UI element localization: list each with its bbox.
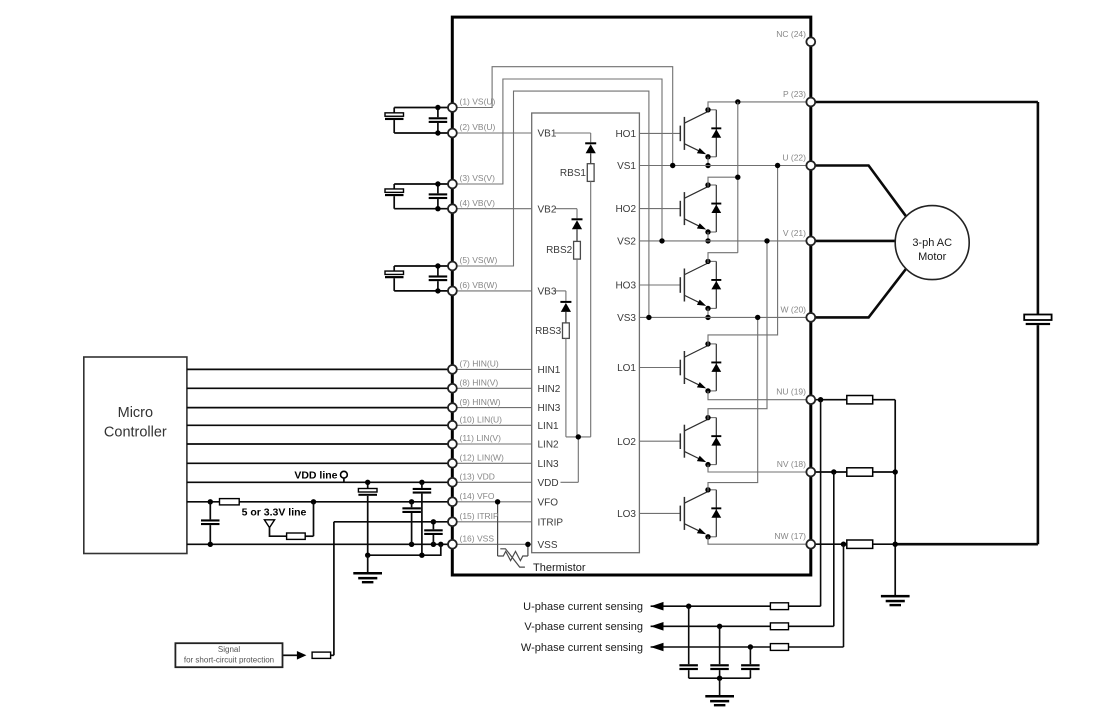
- svg-text:(13) VDD: (13) VDD: [460, 472, 495, 482]
- micro controller box: [84, 357, 187, 554]
- node VFO line taps: [208, 499, 213, 504]
- capacitor C4 VFO filter: [411, 502, 413, 508]
- wire pin12 LIN(W) to inner box: [452, 462, 531, 464]
- wire LO2 gate lead: [639, 440, 680, 442]
- capacitor C3 VDD decoupling: [421, 482, 423, 488]
- wire VB(V) cap branch: [394, 208, 452, 210]
- wire arrow to resistor: [283, 654, 298, 656]
- svg-text:VS2: VS2: [617, 237, 636, 248]
- diode D4 freewheel: [708, 343, 716, 345]
- wire HO1 emitter to VS rail: [707, 157, 709, 166]
- wire pin14 VFO to inner box: [452, 501, 531, 503]
- node NV sense tap: [831, 469, 836, 474]
- svg-text:HO2: HO2: [615, 204, 636, 215]
- pin 2 VB(U): [448, 129, 457, 138]
- svg-text:U (22): U (22): [782, 153, 806, 163]
- svg-text:(7) HIN(U): (7) HIN(U): [460, 359, 499, 369]
- wire U-phase sense line: [651, 605, 821, 607]
- pin 9 HIN(W): [448, 403, 457, 412]
- wire V pin to motor: [811, 240, 896, 243]
- svg-text:W-phase current sensing: W-phase current sensing: [521, 642, 643, 654]
- svg-text:W (20): W (20): [781, 304, 807, 314]
- node LO2 collector: [705, 415, 710, 420]
- capacitor CBW1 bootstrap electrolytic: [393, 266, 395, 271]
- node LO2 emitter: [705, 462, 710, 467]
- motor M1 3-ph AC: [895, 206, 969, 280]
- arrow signal direction: [297, 651, 307, 660]
- svg-text:LO3: LO3: [617, 509, 636, 520]
- wire VS1 rail: [639, 165, 810, 167]
- svg-text:HIN3: HIN3: [538, 403, 561, 414]
- wire pin7 HIN(U) to inner box: [452, 368, 531, 370]
- svg-text:Motor: Motor: [918, 251, 946, 263]
- wire pin15 ITRIP to inner box: [452, 521, 531, 523]
- svg-text:NC (24): NC (24): [776, 29, 806, 39]
- svg-text:(14) VFO: (14) VFO: [460, 491, 495, 501]
- diode D1 freewheel: [708, 109, 716, 111]
- node VDD line taps: [365, 480, 370, 485]
- wire V-phase sense line: [651, 625, 834, 627]
- node NW sense tap: [841, 542, 846, 547]
- resistor sense V-phase: [770, 623, 788, 630]
- wire Q2 collector rail: [708, 177, 738, 186]
- transistor Q5 (V low): [679, 433, 681, 449]
- pin NC (24): [806, 37, 815, 46]
- svg-text:VDD: VDD: [538, 478, 559, 489]
- pin 15 ITRIP: [448, 517, 457, 526]
- capacitor C1 VFO-VSS at MC: [209, 502, 211, 520]
- wire pin11 LIN(V) to inner box: [452, 443, 531, 445]
- svg-text:(2) VB(U): (2) VB(U): [460, 122, 496, 132]
- capacitor CBW2 bootstrap ceramic: [437, 266, 439, 275]
- wire P pin to DC bus: [811, 101, 1038, 104]
- svg-text:(8) HIN(V): (8) HIN(V): [460, 378, 499, 388]
- wire MC to pin9: [187, 407, 453, 409]
- pin 16 VSS: [448, 540, 457, 549]
- pin V (21): [806, 237, 815, 246]
- resistor R3 ITRIP series: [312, 652, 331, 658]
- wire LO2 emitter to N pin line: [708, 465, 811, 472]
- node sense cap tap U: [686, 604, 691, 609]
- diode D2 freewheel: [708, 184, 716, 186]
- resistor RBS1: [587, 164, 594, 182]
- pin 12 LIN(W): [448, 459, 457, 468]
- wire RBS1 to VDD bus: [590, 181, 592, 437]
- pin NV (18): [806, 468, 815, 477]
- node shunt bus junctions: [893, 469, 898, 474]
- svg-text:VB2: VB2: [538, 204, 557, 215]
- pin 5 VS(W): [448, 262, 457, 271]
- resistor sense W-phase: [770, 644, 788, 651]
- pin W (20): [806, 313, 815, 322]
- svg-text:VSS: VSS: [538, 540, 558, 551]
- svg-text:HIN2: HIN2: [538, 384, 561, 395]
- svg-text:(6) VB(W): (6) VB(W): [460, 280, 498, 290]
- node VFO thermistor tap: [495, 499, 500, 504]
- diode DBS3: [560, 301, 571, 303]
- svg-text:(12) LIN(W): (12) LIN(W): [460, 453, 505, 463]
- arrow V-phase sense: [651, 622, 664, 631]
- wire bootstrap VDD bus bar: [566, 436, 591, 438]
- transistor Q1 (U high): [679, 126, 681, 142]
- node HO3 emitter: [705, 306, 710, 311]
- wire MC to pin11: [187, 443, 453, 445]
- wire shunt ground bus: [894, 400, 896, 596]
- capacitor sense filter U-phase: [688, 606, 690, 664]
- wire P bus vertical: [737, 102, 739, 253]
- pin 3 VS(V): [448, 180, 457, 189]
- node HO1 collector: [705, 107, 710, 112]
- wire W current sense drop: [843, 544, 845, 647]
- wire shunt U to bus: [873, 399, 896, 401]
- svg-text:VB1: VB1: [538, 129, 557, 140]
- wire pin8 HIN(V) to inner box: [452, 387, 531, 389]
- svg-text:VB3: VB3: [538, 287, 557, 298]
- wire Q4 collector to U phase: [708, 166, 778, 346]
- wire W pin to motor: [811, 269, 907, 318]
- svg-text:LIN3: LIN3: [538, 459, 560, 470]
- wire MC to pin12: [187, 462, 453, 464]
- svg-text:ITRIP: ITRIP: [538, 517, 564, 528]
- svg-text:(5) VS(W): (5) VS(W): [460, 255, 498, 265]
- wire pin16 VSS to inner box: [452, 543, 531, 545]
- svg-text:HIN1: HIN1: [538, 365, 561, 376]
- svg-text:V (21): V (21): [783, 228, 806, 238]
- svg-text:VFO: VFO: [538, 497, 559, 508]
- diode D6 freewheel: [708, 489, 716, 491]
- wire VB2 net: [555, 208, 578, 210]
- pin 1 VS(U): [448, 103, 457, 112]
- wire sense cap ground rail: [689, 677, 751, 679]
- node VSS line taps: [208, 542, 213, 547]
- svg-text:(16) VSS: (16) VSS: [460, 534, 495, 544]
- svg-text:P (23): P (23): [783, 89, 806, 99]
- svg-text:VS3: VS3: [617, 313, 636, 324]
- wire LO3 emitter to N pin line: [708, 537, 811, 544]
- wire MC to VSS line: [187, 543, 453, 545]
- svg-text:(10) LIN(U): (10) LIN(U): [460, 415, 503, 425]
- wire pin6 VB(W) to inner box: [452, 290, 531, 292]
- capacitor C5 ITRIP filter: [432, 522, 434, 530]
- resistor RS1 shunt U: [847, 396, 873, 404]
- pin P (23): [806, 98, 815, 107]
- svg-text:U-phase current sensing: U-phase current sensing: [523, 601, 643, 613]
- wire VB1 net: [555, 132, 591, 134]
- capacitor CBV2 bootstrap ceramic: [437, 184, 439, 193]
- svg-text:RBS1: RBS1: [560, 168, 587, 179]
- node HO1 emitter: [705, 154, 710, 159]
- svg-text:NU (19): NU (19): [776, 387, 806, 397]
- node sense cap tap W: [748, 644, 753, 649]
- node ITRIP tap: [431, 519, 436, 524]
- capacitor sense filter V-phase: [719, 626, 721, 664]
- wire RBS3 to VDD bus: [565, 338, 567, 437]
- wire NV to shunt: [811, 471, 847, 473]
- svg-text:LIN1: LIN1: [538, 421, 560, 432]
- wire HO2 gate lead: [639, 208, 680, 210]
- svg-text:3-ph AC: 3-ph AC: [912, 237, 952, 249]
- svg-text:(9) HIN(W): (9) HIN(W): [460, 397, 501, 407]
- wire NW to shunt: [811, 543, 847, 545]
- ground GND3: [719, 678, 721, 695]
- node HO2 collector: [705, 182, 710, 187]
- transistor Q4 (U low): [679, 360, 681, 376]
- svg-text:VDD line: VDD line: [294, 469, 337, 481]
- wire HO2 emitter to VS rail: [707, 232, 709, 241]
- wire pin10 LIN(U) to inner box: [452, 424, 531, 426]
- terminal VDD line: [341, 471, 348, 478]
- diode D5 freewheel: [708, 417, 716, 419]
- resistor RS3 shunt W: [847, 540, 873, 548]
- svg-text:V-phase current sensing: V-phase current sensing: [524, 621, 643, 633]
- node NU sense tap: [818, 397, 823, 402]
- node HO2 emitter: [705, 229, 710, 234]
- ground GND2: [881, 595, 910, 598]
- svg-text:(11) LIN(V): (11) LIN(V): [460, 433, 502, 443]
- wire MC to VFO line: [187, 501, 453, 503]
- svg-text:RBS2: RBS2: [546, 245, 573, 256]
- pin 11 LIN(V): [448, 440, 457, 449]
- svg-text:(15) ITRIP: (15) ITRIP: [460, 511, 500, 521]
- wire VS2 rail: [639, 240, 810, 242]
- wire shunt V to bus: [873, 471, 896, 473]
- resistor sense U-phase: [770, 603, 788, 610]
- wire VS(V) cap branch: [394, 183, 452, 185]
- pin 8 HIN(V): [448, 384, 457, 393]
- svg-text:Signal: Signal: [218, 645, 240, 654]
- svg-text:5 or 3.3V line: 5 or 3.3V line: [242, 507, 307, 519]
- svg-text:LIN2: LIN2: [538, 440, 560, 451]
- wire MC to pin10: [187, 424, 453, 426]
- node VS2 junctions: [659, 238, 664, 243]
- wire VS(W) cap branch: [394, 265, 452, 267]
- IC package outline: [452, 17, 811, 575]
- wire pin2 VB(U) to inner box: [452, 132, 531, 134]
- wire VDD terminal stem: [343, 478, 345, 482]
- node cap branch junctions V: [435, 181, 440, 186]
- wire VFO to thermistor: [497, 502, 499, 556]
- resistor R2 VFO pullup: [287, 533, 306, 539]
- wire MC to pin13: [187, 481, 453, 483]
- pin NU (19): [806, 395, 815, 404]
- wire VS3 rail: [639, 316, 810, 318]
- diode D3 freewheel: [708, 260, 716, 262]
- arrow W-phase sense: [651, 643, 664, 652]
- wire Q5 collector to V phase: [708, 241, 767, 419]
- pin 13 VDD: [448, 478, 457, 487]
- transistor Q2 (V high): [679, 201, 681, 217]
- svg-text:for short-circuit protection: for short-circuit protection: [184, 656, 274, 665]
- svg-text:HO1: HO1: [615, 129, 636, 140]
- node LO1 emitter: [705, 388, 710, 393]
- wire pin5 VS(W) loop to VS3: [452, 91, 649, 317]
- node ground rail junctions: [365, 553, 370, 558]
- wire VSS to ground rail: [368, 544, 441, 555]
- wire ITRIP to protection signal: [334, 521, 453, 523]
- wire HO1 gate lead: [639, 132, 680, 134]
- wire W-phase sense line: [651, 646, 844, 648]
- arrow U-phase sense: [651, 602, 664, 611]
- resistor RBS3: [563, 323, 570, 339]
- resistor R1 VFO series: [220, 499, 240, 505]
- wire LO3 gate lead: [639, 512, 680, 514]
- pin 4 VB(V): [448, 204, 457, 213]
- wire U current sense drop: [820, 400, 822, 607]
- wire shunt W to DC return: [873, 543, 896, 545]
- wire VB(U) cap branch: [394, 132, 452, 134]
- wire pin4 VB(V) to inner box: [452, 208, 531, 210]
- wire Q3 collector rail: [708, 253, 738, 263]
- svg-text:VS1: VS1: [617, 161, 636, 172]
- wire LO1 emitter to N pin line: [708, 391, 811, 400]
- capacitor CBU2 bootstrap ceramic: [437, 108, 439, 118]
- svg-text:(3) VS(V): (3) VS(V): [460, 173, 496, 183]
- pin 10 LIN(U): [448, 421, 457, 430]
- node VS1 junctions: [670, 163, 675, 168]
- svg-text:Thermistor: Thermistor: [533, 562, 586, 574]
- wire VS(U) cap branch: [394, 107, 452, 109]
- node LO3 collector: [705, 487, 710, 492]
- wire HO3 emitter to VS rail: [707, 308, 709, 317]
- svg-text:Micro: Micro: [118, 405, 153, 421]
- resistor RBS2: [574, 241, 581, 259]
- wire pin3 VS(V) loop to VS2: [452, 79, 662, 241]
- node cap branch junctions W: [435, 263, 440, 268]
- wire NU to shunt: [811, 399, 847, 401]
- wire pin9 HIN(W) to inner box: [452, 407, 531, 409]
- wire thermistor to VSS: [527, 544, 529, 556]
- svg-text:LO2: LO2: [617, 437, 636, 448]
- svg-text:Controller: Controller: [104, 425, 167, 441]
- wire 5V to VFO pullup: [270, 528, 287, 537]
- ground GND1: [367, 555, 369, 572]
- node HO3 collector: [705, 259, 710, 264]
- node LO1 collector: [705, 341, 710, 346]
- node cap branch junctions U: [435, 105, 440, 110]
- wire U pin to motor: [811, 166, 907, 217]
- node sense ground junction: [717, 676, 722, 681]
- wire MC to pin8: [187, 387, 453, 389]
- thermistor RT1: [498, 551, 528, 560]
- pin NW (17): [806, 540, 815, 549]
- wire Q1 collector to P pin: [708, 102, 811, 112]
- node sense cap tap V: [717, 624, 722, 629]
- svg-text:(4) VB(V): (4) VB(V): [460, 198, 496, 208]
- pin 14 VFO: [448, 497, 457, 506]
- wire pin13 VDD to inner box: [452, 481, 531, 483]
- inner box HVIC gate driver U1: [532, 113, 640, 553]
- signal source box: [175, 643, 282, 667]
- capacitor sense filter W-phase: [749, 647, 751, 664]
- wire VB3 net: [555, 290, 566, 292]
- resistor RS2 shunt V: [847, 468, 873, 476]
- node VS3 junctions: [646, 315, 651, 320]
- diode DBS2: [572, 218, 583, 220]
- wire VB(W) cap branch: [394, 290, 452, 292]
- capacitor C2 VDD bulk: [367, 482, 369, 488]
- svg-text:LO1: LO1: [617, 363, 636, 374]
- pin U (22): [806, 161, 815, 170]
- wire HO3 gate lead: [639, 284, 680, 286]
- wire RBS2 to VDD bus: [576, 259, 578, 437]
- svg-text:(1) VS(U): (1) VS(U): [460, 97, 496, 107]
- pin 6 VB(W): [448, 287, 457, 296]
- transistor Q3 (W high): [679, 277, 681, 293]
- wire Q6 collector to W phase: [708, 317, 758, 491]
- node P bus to Q2: [735, 175, 740, 180]
- diode DBS1: [585, 142, 596, 144]
- supply arrow 5V: [264, 520, 274, 528]
- wire pin1 VS(U) loop to VS1: [452, 67, 672, 166]
- svg-text:NW (17): NW (17): [774, 531, 806, 541]
- capacitor CBU1 bootstrap electrolytic: [393, 108, 395, 113]
- node LO3 emitter: [705, 534, 710, 539]
- svg-text:NV (18): NV (18): [777, 459, 806, 469]
- node P bus tap: [735, 99, 740, 104]
- transistor Q6 (W low): [679, 506, 681, 522]
- capacitor C6 DC link: [1024, 315, 1051, 321]
- pin 7 HIN(U): [448, 365, 457, 374]
- svg-text:RBS3: RBS3: [535, 326, 562, 337]
- node thermistor VSS tap: [525, 542, 530, 547]
- wire LO1 gate lead: [639, 367, 680, 369]
- wire V current sense drop: [833, 472, 835, 626]
- node bootstrap bus junction: [576, 434, 581, 439]
- wire MC to pin7: [187, 368, 453, 370]
- svg-text:HO3: HO3: [615, 281, 636, 292]
- capacitor CBV1 bootstrap electrolytic: [393, 184, 395, 189]
